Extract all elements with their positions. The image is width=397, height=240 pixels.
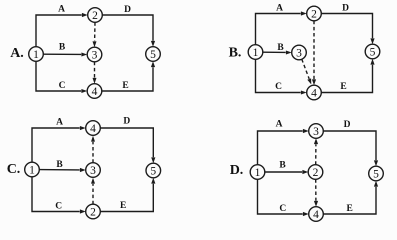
node 5 (diagram D) (369, 166, 384, 181)
svg-text:E: E (340, 82, 346, 92)
svg-text:B: B (56, 160, 63, 170)
svg-text:2: 2 (90, 207, 96, 219)
svg-text:1: 1 (255, 167, 261, 179)
wire A: 1 to 3 (diagram D) (258, 129, 309, 165)
wire E: 4 to 5 (diagram B) (321, 59, 374, 93)
svg-text:C: C (279, 204, 286, 214)
svg-text:D: D (342, 4, 349, 14)
node 1 (diagram B) (248, 45, 263, 60)
node 2 (diagram B) (307, 6, 322, 21)
node 2 (diagram D) (308, 165, 323, 180)
wire E: 4 to 5 (diagram A) (102, 61, 155, 91)
svg-text:A: A (276, 120, 283, 130)
svg-text:D: D (344, 120, 351, 130)
svg-text:1: 1 (253, 47, 259, 59)
svg-text:D.: D. (230, 163, 244, 178)
node 4 (diagram B) (307, 85, 322, 100)
svg-text:D: D (123, 117, 130, 127)
svg-text:2: 2 (92, 10, 98, 22)
svg-text:1: 1 (29, 165, 35, 177)
svg-text:A: A (56, 118, 63, 128)
wire E: 4 to 5 (diagram D) (323, 181, 378, 214)
wire A: 1 to 2 (diagram B) (256, 11, 307, 44)
svg-text:E: E (347, 204, 353, 214)
dashed dummy arrow 2 to 3 (diagram A) (93, 22, 97, 47)
svg-text:5: 5 (373, 169, 379, 181)
svg-text:4: 4 (313, 209, 319, 221)
node 5 (diagram B) (365, 44, 380, 59)
svg-text:4: 4 (90, 123, 96, 135)
node 3 (diagram A) (87, 47, 102, 62)
wire E: 2 to 5 (diagram C) (100, 178, 155, 212)
node 2 (diagram A) (88, 8, 103, 23)
node 4 (diagram A) (87, 84, 102, 99)
svg-text:3: 3 (296, 48, 302, 60)
svg-text:3: 3 (92, 50, 98, 62)
wire B: 1 to 3 (diagram C) (39, 168, 85, 172)
svg-text:1: 1 (33, 49, 39, 61)
node 2 (diagram C) (86, 204, 101, 219)
dashed dummy arrow 2 to 4 (diagram D) (314, 179, 318, 206)
wire C: 1 to 2 (diagram C) (32, 177, 86, 214)
wire D: 3 to 5 (diagram D) (323, 131, 378, 166)
svg-text:B: B (277, 43, 284, 53)
svg-text:5: 5 (150, 49, 156, 61)
svg-text:D: D (124, 5, 131, 15)
svg-text:5: 5 (370, 47, 376, 59)
svg-text:5: 5 (150, 166, 156, 178)
svg-text:2: 2 (313, 167, 319, 179)
node 3 (diagram C) (86, 163, 101, 178)
wire C: 1 to 4 (diagram A) (36, 61, 87, 93)
svg-text:C: C (275, 82, 282, 92)
svg-text:B.: B. (229, 46, 242, 61)
svg-text:C: C (55, 202, 62, 212)
dashed dummy arrow 2 to 4 (diagram B) (312, 21, 316, 85)
svg-text:3: 3 (90, 165, 96, 177)
wire D: 2 to 5 (diagram B) (321, 14, 374, 45)
svg-text:B: B (279, 161, 286, 171)
svg-text:4: 4 (92, 86, 98, 98)
svg-text:C.: C. (7, 162, 21, 177)
wire B: 1 to 2 (diagram D) (265, 170, 308, 174)
svg-text:B: B (59, 43, 66, 53)
svg-text:C: C (59, 81, 66, 91)
node 5 (diagram C) (146, 163, 161, 178)
wire C: 1 to 4 (diagram B) (256, 59, 307, 94)
dashed dummy arrow 3 to 4 (diagram B) (302, 59, 312, 84)
node 3 (diagram D) (309, 124, 324, 139)
node 4 (diagram C) (86, 121, 101, 136)
svg-text:2: 2 (311, 9, 317, 21)
wire B: 1 to 3 (diagram B) (263, 51, 292, 55)
dashed dummy arrow 2 to 3 (diagram D) (314, 138, 318, 164)
svg-text:E: E (120, 201, 126, 211)
node 1 (diagram D) (250, 165, 265, 180)
wire C: 1 to 4 (diagram D) (258, 179, 309, 216)
wire B: 1 to 3 (diagram A) (43, 53, 87, 57)
svg-text:4: 4 (311, 88, 317, 100)
svg-text:E: E (122, 81, 128, 91)
svg-text:A.: A. (10, 46, 24, 61)
node 3 (diagram B) (292, 45, 307, 60)
dashed dummy arrow 2 to 3 (diagram C) (91, 178, 95, 204)
wire D: 2 to 5 (diagram A) (102, 15, 155, 47)
wire D: 4 to 5 (diagram C) (100, 128, 155, 163)
wire A: 1 to 2 (diagram A) (36, 13, 88, 47)
svg-text:A: A (276, 4, 283, 14)
svg-text:A: A (58, 5, 65, 15)
svg-text:3: 3 (313, 126, 319, 138)
node 4 (diagram D) (309, 207, 324, 222)
dashed dummy arrow 3 to 4 (diagram C) (91, 136, 95, 163)
node 5 (diagram A) (146, 47, 161, 62)
node 1 (diagram C) (25, 162, 40, 177)
node 1 (diagram A) (29, 47, 44, 62)
dashed dummy arrow 3 to 4 (diagram A) (93, 62, 97, 84)
wire A: 1 to 4 (diagram C) (32, 126, 86, 162)
